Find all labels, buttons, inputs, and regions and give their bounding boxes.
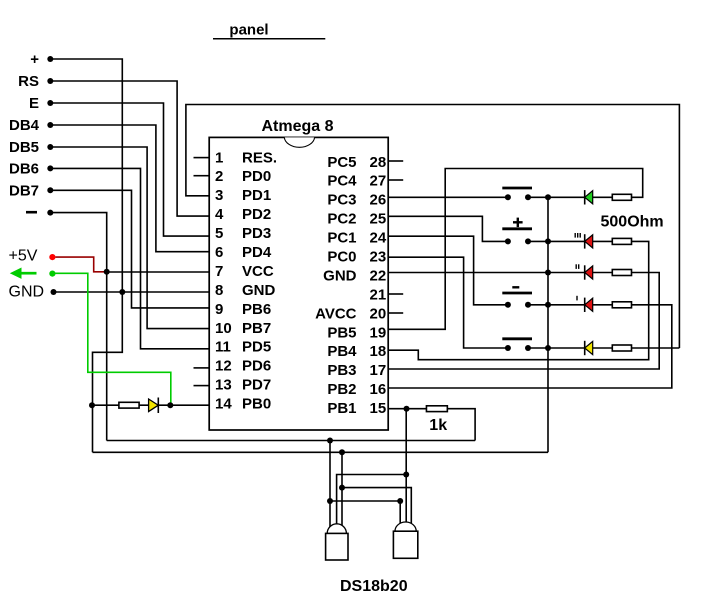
- pin 27 label: [327, 173, 386, 190]
- label - for button S3: [512, 286, 519, 288]
- pin 2 label: [215, 168, 271, 185]
- wire + (panel + to jog down): [50, 59, 122, 452]
- svg-text:13: 13: [215, 377, 232, 394]
- wire bus to LED1: [548, 196, 585, 198]
- pin 5 label: [215, 225, 271, 242]
- pin 20 label: [315, 305, 386, 322]
- node E (LCD panel terminal): [29, 95, 53, 112]
- junction +5V to minus rail: [104, 269, 110, 275]
- LED D6 yellow: [585, 341, 593, 355]
- wire LED1 to resistor: [593, 196, 613, 198]
- svg-text:4: 4: [215, 206, 224, 223]
- LED D2 green: [585, 190, 593, 204]
- svg-text:21: 21: [370, 286, 387, 303]
- wire DQ vertical from pin15: [405, 409, 407, 524]
- pin 2 stub: [194, 175, 210, 177]
- svg-text:PB3: PB3: [327, 362, 356, 379]
- wire pin23 PC0 to button S4: [388, 257, 508, 348]
- pin 13 label: [215, 377, 271, 394]
- value label 1k: [429, 417, 447, 434]
- wire line1 +5V rail to sensors: [107, 440, 475, 442]
- junction line4: [339, 485, 345, 491]
- svg-text:PD4: PD4: [242, 244, 272, 261]
- junction DQ split: [403, 472, 409, 478]
- value label 500Ohm: [601, 214, 664, 231]
- svg-text:RES.: RES.: [242, 149, 277, 166]
- svg-text:23: 23: [370, 249, 387, 266]
- node +5V terminal: [9, 247, 56, 264]
- pin 18 label: [327, 343, 386, 360]
- wire line4b to sensor2 right: [342, 488, 411, 525]
- pin 21 label: [370, 286, 387, 303]
- sensor DS18b20 #2: [393, 522, 417, 558]
- node + (LCD panel terminal): [30, 51, 53, 68]
- junction GND and + vertical: [119, 289, 125, 295]
- wire sensor1 left drop: [329, 441, 331, 530]
- svg-text:PD3: PD3: [242, 225, 271, 242]
- wire button S2 to bus: [528, 240, 548, 242]
- button S4: [502, 339, 532, 351]
- wire minus down left side: [50, 213, 106, 441]
- wire LED2 to resistor: [593, 240, 613, 242]
- wire DB6 to pin11 PD5: [50, 168, 209, 348]
- node DB5 (LCD panel terminal): [9, 139, 53, 156]
- svg-text:PB2: PB2: [327, 381, 356, 398]
- wire DB4 to pin6 PD4: [50, 125, 209, 252]
- label + for button S2: [513, 218, 523, 228]
- wire resistor R3 to pin18 PB4: [388, 241, 649, 359]
- svg-text:PC2: PC2: [327, 211, 356, 228]
- wire button S3 to bus: [528, 304, 548, 306]
- resistor R3 500Ohm: [612, 238, 631, 244]
- svg-text:PD0: PD0: [242, 168, 271, 185]
- wire DB7 to pin9 PB6: [50, 190, 209, 308]
- svg-text:+5V: +5V: [9, 247, 38, 264]
- svg-text:20: 20: [370, 305, 387, 322]
- svg-text:28: 28: [370, 154, 387, 171]
- pin 19 label: [327, 324, 386, 341]
- wire line3 DQ to sensor1 middle: [337, 475, 407, 530]
- junction pin15: [404, 406, 410, 412]
- svg-text:RS: RS: [18, 73, 39, 90]
- label DS18b20: [340, 578, 408, 595]
- svg-text:PD6: PD6: [242, 358, 271, 375]
- junction line1 sensor1: [327, 438, 333, 444]
- pin 10 label: [215, 320, 271, 337]
- resistor R6 500Ohm: [612, 345, 631, 351]
- tick mark I: [576, 296, 578, 301]
- wire resistor R6 to PD1 rail: [632, 347, 680, 349]
- pin 12 label: [215, 358, 271, 375]
- IC label Atmega 8: [261, 118, 333, 135]
- junction line2 sensor1: [339, 449, 345, 455]
- wire DB5 to pin10 PB7: [50, 147, 209, 329]
- pin 17 label: [327, 362, 386, 379]
- wire pin15 PB1 row: [388, 408, 426, 410]
- pin 1 stub: [194, 157, 210, 159]
- pin 16 label: [327, 381, 386, 398]
- junction line5 right: [397, 498, 403, 504]
- pin 21 stub: [388, 293, 403, 295]
- resistor R2 500Ohm: [612, 194, 631, 200]
- wire RS to pin4 PD2: [50, 81, 209, 216]
- wire line2 GND rail to bus: [93, 451, 549, 453]
- pin 23 label: [327, 249, 386, 266]
- wire pin25 PC2 to button S2: [388, 216, 508, 241]
- svg-text:26: 26: [370, 192, 387, 209]
- wire button S4 to bus: [528, 347, 548, 349]
- svg-text:9: 9: [215, 301, 223, 318]
- wire bus to LED2: [548, 240, 585, 242]
- svg-text:PD1: PD1: [242, 187, 271, 204]
- wire pin22 GND to bus: [388, 272, 548, 274]
- svg-text:27: 27: [370, 173, 387, 190]
- svg-text:DB4: DB4: [9, 117, 40, 134]
- wire pin24 PC1 to button S3: [388, 236, 508, 305]
- svg-text:7: 7: [215, 263, 223, 280]
- svg-text:15: 15: [370, 400, 387, 417]
- svg-text:PB7: PB7: [242, 320, 271, 337]
- pin 4 label: [215, 206, 271, 223]
- svg-text:DS18b20: DS18b20: [340, 578, 408, 595]
- wire LED5 to resistor: [593, 347, 613, 349]
- button S1: [502, 188, 532, 200]
- svg-text:PB5: PB5: [327, 324, 356, 341]
- junction bus row1: [545, 194, 551, 200]
- junction bus row4: [545, 302, 551, 308]
- pin 9 label: [215, 301, 271, 318]
- svg-text:17: 17: [370, 362, 387, 379]
- svg-text:PD2: PD2: [242, 206, 271, 223]
- junction bus row5: [545, 345, 551, 351]
- LED D5 red: [585, 298, 593, 312]
- wire pin26 PC3 to button S1: [388, 196, 508, 198]
- svg-text:2: 2: [215, 168, 223, 185]
- svg-text:22: 22: [370, 267, 387, 284]
- svg-text:11: 11: [215, 339, 231, 356]
- pin 13 stub: [194, 385, 210, 387]
- svg-text:8: 8: [215, 282, 223, 299]
- pin 7 label: [215, 263, 274, 280]
- pin 15 label: [327, 400, 386, 417]
- svg-text:19: 19: [370, 324, 387, 341]
- IC U1 Atmega 8 body: [209, 137, 388, 430]
- wire line4 sensor1 right to sensor2 right: [341, 452, 343, 529]
- pin 27 stub: [388, 179, 403, 181]
- svg-text:GND: GND: [242, 282, 276, 299]
- resistor on PB0 row: [119, 402, 139, 408]
- svg-text:GND: GND: [323, 267, 357, 284]
- pin 28 label: [327, 154, 386, 171]
- wire resistor R2 to pin19 PB5 up-over: [388, 169, 643, 330]
- pin 8 label: [215, 282, 276, 299]
- node DB4 (LCD panel terminal): [9, 117, 53, 134]
- pin 28 stub: [388, 160, 403, 162]
- svg-text:PB0: PB0: [242, 396, 271, 413]
- wire button S1 to bus: [528, 196, 548, 198]
- LED D3 red: [585, 234, 593, 248]
- wire VCC row to pin7: [107, 271, 210, 273]
- svg-text:PB6: PB6: [242, 301, 271, 318]
- node DB7 (LCD panel terminal): [9, 183, 53, 200]
- svg-text:AVCC: AVCC: [315, 305, 357, 322]
- pin 22 label: [323, 267, 386, 284]
- svg-text:panel: panel: [229, 22, 268, 39]
- wire PD1 top rail: [186, 105, 680, 349]
- svg-text:+: +: [30, 51, 39, 68]
- wire resistor R5 to pin16 PB2: [388, 305, 672, 388]
- svg-text:PD5: PD5: [242, 339, 271, 356]
- svg-text:10: 10: [215, 320, 232, 337]
- svg-text:PC3: PC3: [327, 192, 356, 209]
- wire resistor R4 to pin17 PB3: [388, 273, 659, 370]
- wire bus to LED3: [548, 272, 585, 274]
- pin 1 label: [215, 149, 277, 166]
- wire PB0 row: [92, 404, 209, 406]
- pin 20 stub: [388, 312, 403, 314]
- wire GND bus vertical: [547, 197, 549, 452]
- svg-text:25: 25: [370, 211, 387, 228]
- svg-text:GND: GND: [9, 283, 45, 300]
- wire GND row to pin8: [54, 291, 210, 293]
- svg-text:PC0: PC0: [327, 249, 356, 266]
- wire +5V red: [56, 257, 106, 272]
- tick marks II: [576, 264, 579, 269]
- svg-text:500Ohm: 500Ohm: [601, 214, 664, 231]
- node RS (LCD panel terminal): [18, 73, 53, 90]
- svg-text:PC1: PC1: [327, 230, 356, 247]
- pin 25 label: [327, 211, 386, 228]
- svg-text:PC5: PC5: [327, 154, 356, 171]
- LED D4 red: [585, 265, 593, 279]
- button S3: [502, 293, 532, 308]
- pin 24 label: [327, 230, 387, 247]
- pin 3 label: [215, 187, 271, 204]
- diode D1 yellow: [149, 398, 159, 414]
- wire bus to LED4: [548, 304, 585, 306]
- svg-text:24: 24: [370, 230, 387, 247]
- node minus (LCD panel terminal): [26, 210, 53, 216]
- tick marks III: [575, 233, 580, 238]
- node DB6 (LCD panel terminal): [9, 161, 53, 178]
- svg-text:14: 14: [215, 396, 232, 413]
- button S2: [502, 229, 532, 245]
- svg-text:1: 1: [215, 149, 223, 166]
- wire green from arrow to PB0 row: [52, 273, 170, 404]
- svg-text:16: 16: [370, 381, 387, 398]
- svg-text:1k: 1k: [429, 417, 447, 434]
- net label: panel title: [213, 22, 325, 39]
- wire E to pin5 PD3: [50, 103, 209, 236]
- svg-text:DB6: DB6: [9, 161, 39, 178]
- svg-text:12: 12: [215, 358, 232, 375]
- svg-text:PB1: PB1: [327, 400, 356, 417]
- resistor R5 500Ohm: [612, 302, 631, 308]
- pin 14 label: [215, 396, 271, 413]
- wire 1k to +5V line: [447, 409, 475, 441]
- wire LED4 to resistor: [593, 304, 613, 306]
- pin 12 stub: [194, 367, 210, 369]
- svg-text:18: 18: [370, 343, 387, 360]
- junction bus row2: [545, 238, 551, 244]
- svg-text:5: 5: [215, 225, 223, 242]
- svg-text:PC4: PC4: [327, 173, 357, 190]
- wire bus to LED5: [548, 347, 585, 349]
- pin 26 label: [327, 192, 386, 209]
- pin 11 label: [215, 339, 271, 356]
- junction bus row3: [545, 270, 551, 276]
- junction green to PB0 row: [167, 402, 173, 408]
- svg-text:PD7: PD7: [242, 377, 271, 394]
- svg-text:PB4: PB4: [327, 343, 357, 360]
- junction line5 left: [327, 498, 333, 504]
- svg-text:E: E: [29, 95, 39, 112]
- resistor R4 500Ohm: [612, 270, 631, 276]
- svg-text:DB5: DB5: [9, 139, 39, 156]
- svg-text:DB7: DB7: [9, 183, 39, 200]
- svg-text:3: 3: [215, 187, 223, 204]
- green arrow (supply out): [10, 268, 56, 279]
- svg-text:VCC: VCC: [242, 263, 274, 280]
- wire LED3 to resistor: [593, 272, 613, 274]
- pin 6 label: [215, 244, 272, 261]
- resistor R7 1k: [426, 406, 447, 412]
- wire line5 to sensor2 left: [330, 501, 400, 525]
- sensor DS18b20 #1: [326, 524, 348, 560]
- svg-text:Atmega 8: Atmega 8: [261, 118, 333, 135]
- svg-text:6: 6: [215, 244, 223, 261]
- node GND terminal: [9, 283, 57, 300]
- junction diode row left: [89, 402, 95, 408]
